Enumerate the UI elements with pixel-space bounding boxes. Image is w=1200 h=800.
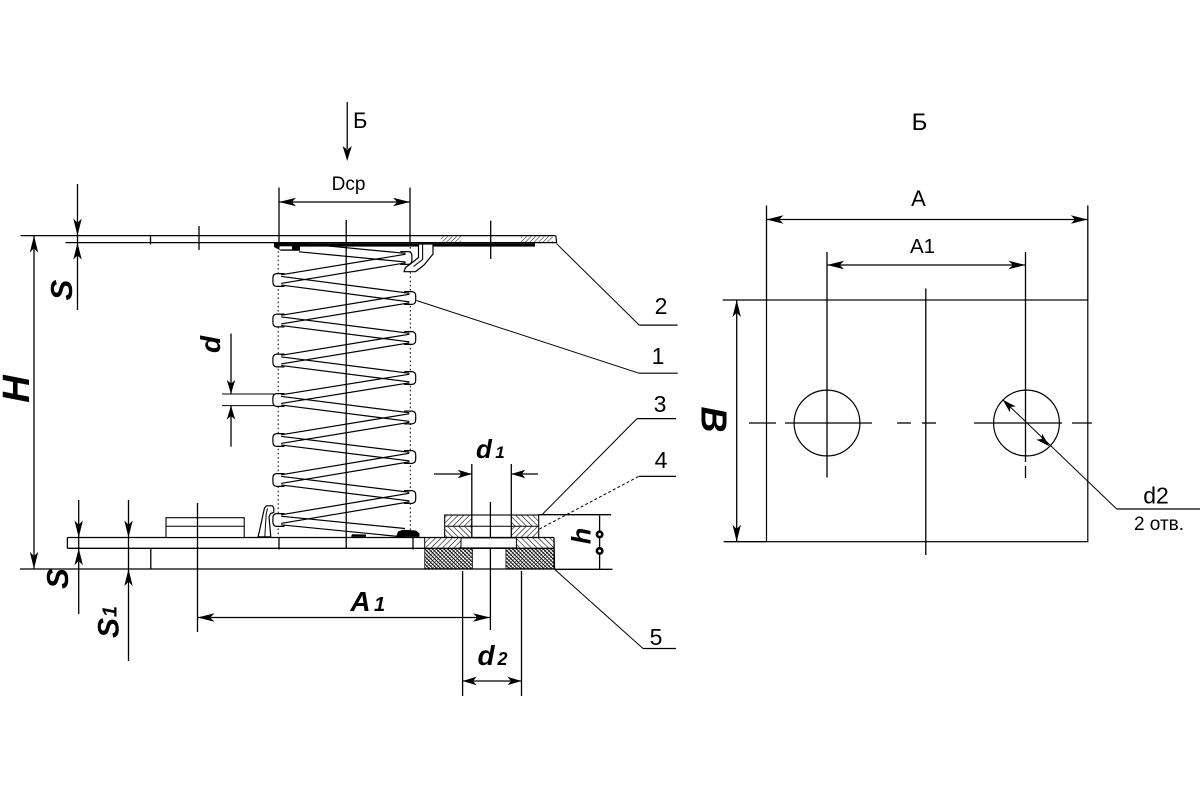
svg-text:5: 5: [650, 624, 663, 650]
dimension d lines: [230, 334, 232, 395]
svg-text:1: 1: [100, 606, 122, 617]
dimension A: [766, 206, 768, 301]
leader part 2: [557, 244, 640, 325]
centerline tick left mounting position: [198, 226, 200, 250]
svg-text:B: B: [694, 407, 735, 433]
leader part 5: [555, 569, 644, 648]
grommet flange hatch lower-right: [512, 527, 538, 537]
top plate hatch section right: [521, 236, 553, 242]
base upper sheet lines: [67, 537, 554, 539]
dimension A1 line: [198, 617, 491, 619]
hole right vertical centerline: [1025, 300, 1027, 462]
svg-text:d: d: [477, 640, 495, 671]
svg-text:d: d: [476, 434, 493, 464]
tick at base left: [278, 538, 280, 550]
stud centerline: [489, 502, 491, 630]
spring centerline: [345, 220, 347, 549]
grommet flange hatch upper-right: [512, 516, 538, 526]
svg-text:2: 2: [655, 293, 668, 319]
dimension Dcp lines: [278, 188, 280, 246]
svg-text:Б: Б: [912, 109, 928, 136]
leader part 4 (dashed): [539, 476, 638, 529]
grommet upper flange outline: [445, 515, 539, 538]
spring top ground end (black): [274, 243, 535, 246]
dimension h line and dots: [599, 516, 601, 569]
svg-text:3: 3: [654, 391, 667, 417]
dimension S lower: [78, 500, 80, 614]
plate outline top view: [767, 300, 1088, 542]
svg-text:h: h: [567, 528, 597, 545]
grommet washer in sheet hole: [461, 538, 516, 548]
svg-text:1: 1: [495, 443, 504, 462]
plate vertical centerline: [925, 289, 927, 556]
stud sides (d1 extension lines): [471, 464, 473, 538]
svg-text:H: H: [0, 374, 38, 403]
hole left vertical centerline: [826, 300, 828, 478]
spring retainer clip bottom: [258, 506, 274, 537]
centerline tick right mounting position: [490, 221, 492, 259]
rubber pad cross-hatch left: [425, 549, 473, 569]
svg-text:2 отв.: 2 отв.: [1134, 514, 1184, 535]
hole right: [994, 390, 1060, 456]
spring coil (part 1): [277, 247, 279, 536]
base sheet hatch right of washer: [516, 538, 553, 548]
svg-text:A: A: [911, 186, 926, 211]
dimension d2 arrow in hole: [1003, 400, 1117, 509]
top plate hatch section left: [441, 236, 461, 242]
grommet flange hatch upper-left: [445, 516, 472, 526]
top plate (upper mounting plate): [21, 235, 556, 237]
base lower sheet lines: [20, 568, 555, 570]
dimension d2 line: [463, 680, 522, 682]
dimension A1 left extension / centerline: [197, 503, 199, 632]
svg-text:A1: A1: [910, 235, 935, 258]
dimension d1: [434, 473, 472, 475]
spring retainer clip top (part 2 hook): [404, 244, 433, 272]
svg-text:d: d: [195, 335, 226, 353]
dimension B: [736, 300, 738, 542]
svg-text:Dср: Dср: [332, 174, 366, 195]
leader part 1: [417, 301, 640, 374]
leader part 3: [542, 419, 637, 515]
dimension S1: [128, 500, 130, 661]
view-direction arrow Б: [346, 102, 348, 149]
horizontal centerline dash-dot: [749, 422, 776, 424]
dimension A1 right view: [826, 252, 828, 300]
spring bottom ground end (black): [396, 530, 420, 537]
dimension d2 extension lines: [462, 571, 464, 696]
tick at base right: [412, 538, 414, 550]
grommet flange hatch lower-left: [445, 527, 472, 537]
hole left: [794, 390, 860, 456]
base sheet hatch left of washer: [425, 538, 461, 548]
svg-text:Б: Б: [353, 108, 367, 133]
clamp block on base: [166, 518, 244, 538]
svg-text:d2: d2: [1143, 483, 1169, 509]
dimension h extension lines: [539, 514, 612, 516]
dimension H line: [33, 236, 35, 569]
rubber pad cross-hatch right: [506, 549, 554, 569]
svg-text:1: 1: [652, 343, 665, 369]
svg-text:2: 2: [496, 649, 507, 669]
svg-text:S: S: [44, 279, 79, 300]
svg-text:S: S: [93, 618, 126, 638]
svg-text:1: 1: [374, 594, 385, 616]
svg-text:A: A: [349, 586, 370, 617]
dimension S upper: [77, 184, 79, 310]
svg-text:S: S: [40, 568, 75, 589]
svg-text:4: 4: [655, 447, 668, 473]
